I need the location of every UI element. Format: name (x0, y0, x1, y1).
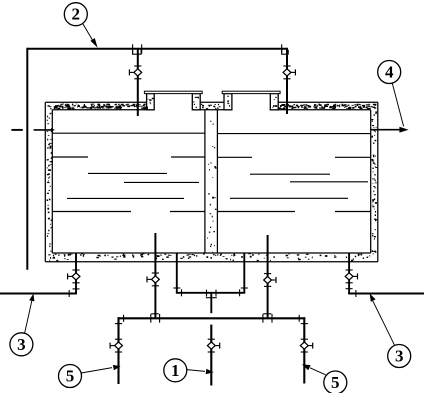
callout 3 left leader and arrow (25, 297, 33, 333)
wire right compartment outlet pipe (267, 235, 269, 318)
callout 1 leader and arrow (187, 370, 205, 372)
inlet line into tank (34, 129, 52, 131)
wire right suction drop (303, 317, 305, 383)
wire top fill header (27, 48, 287, 50)
callout 5 left circle (59, 365, 82, 388)
svg-text:5: 5 (331, 373, 340, 392)
node elbow ticks left washout (73, 288, 80, 290)
callout 3 left circle (10, 333, 33, 356)
valve V8 center drain valve (207, 342, 215, 349)
svg-text:4: 4 (385, 63, 394, 82)
callout 5 right leader and arrow (310, 368, 326, 375)
callout 3 right leader and arrow (371, 297, 395, 346)
node manifold tee left ticks (150, 314, 152, 323)
valve V1 left fill valve (134, 69, 142, 76)
wire left roof drop pipe (137, 49, 139, 116)
valve V4 left outlet valve (152, 276, 160, 283)
svg-text:1: 1 (171, 361, 180, 380)
callout 4 circle (378, 61, 401, 84)
valve V7 left suction valve (115, 342, 123, 349)
node U-drain left elbow ticks (173, 287, 180, 289)
wire right compartment washout drop (348, 253, 350, 294)
callout 3 right circle (388, 345, 411, 368)
callout 5 right circle (324, 371, 347, 393)
node manifold left elbow ticks (123, 315, 125, 322)
wire center drain stub above manifold (210, 293, 212, 313)
wire left compartment outlet pipe (154, 233, 156, 318)
node manifold tee right ticks (262, 314, 264, 323)
water level lines right compartment (217, 133, 370, 135)
node header tee left (flange ticks and loop) (132, 44, 134, 53)
wire right roof drop pipe (286, 48, 288, 114)
wire U-drain right leg (243, 253, 245, 293)
callout 1 circle (164, 359, 187, 382)
svg-text:2: 2 (72, 5, 81, 24)
wire left suction drop (117, 317, 119, 384)
node header corner right (flange tick and loop) (281, 44, 283, 52)
inlet stub dash (11, 129, 22, 131)
svg-text:3: 3 (395, 347, 404, 366)
outlet line with arrow (371, 129, 400, 131)
node U-drain right elbow ticks (241, 287, 248, 289)
callout 5 left leader and arrow (81, 368, 112, 373)
node elbow ticks right washout (346, 288, 353, 290)
tank shell (two-compartment reservoir walls, roof, floor) (45, 101, 146, 103)
valve V3 left washout valve (72, 273, 80, 280)
node manifold right elbow ticks (298, 315, 300, 322)
wire left waste line (0, 293, 77, 295)
wire left riser main (26, 48, 28, 270)
wire center drain drop below manifold (210, 325, 212, 386)
callout 2 circle (64, 3, 87, 26)
svg-text:3: 3 (17, 335, 26, 354)
wire left compartment washout drop (75, 253, 77, 294)
node U-drain center flange pair (206, 290, 208, 297)
wire suction manifold (118, 317, 306, 319)
concrete stipple texture (48, 104, 149, 110)
water level lines left compartment (52, 132, 205, 134)
valve V9 right suction valve (300, 342, 308, 349)
valve V5 right outlet valve (264, 276, 272, 283)
callout 2 leader and arrow (83, 24, 94, 43)
valve V6 right washout valve (345, 273, 353, 280)
callout 4 leader (392, 84, 403, 127)
wire U-drain left leg (176, 253, 178, 293)
svg-text:5: 5 (66, 367, 75, 386)
wire right waste line (348, 293, 424, 295)
valve V2 right fill valve (283, 69, 291, 76)
wire U-drain bottom run (176, 292, 245, 294)
